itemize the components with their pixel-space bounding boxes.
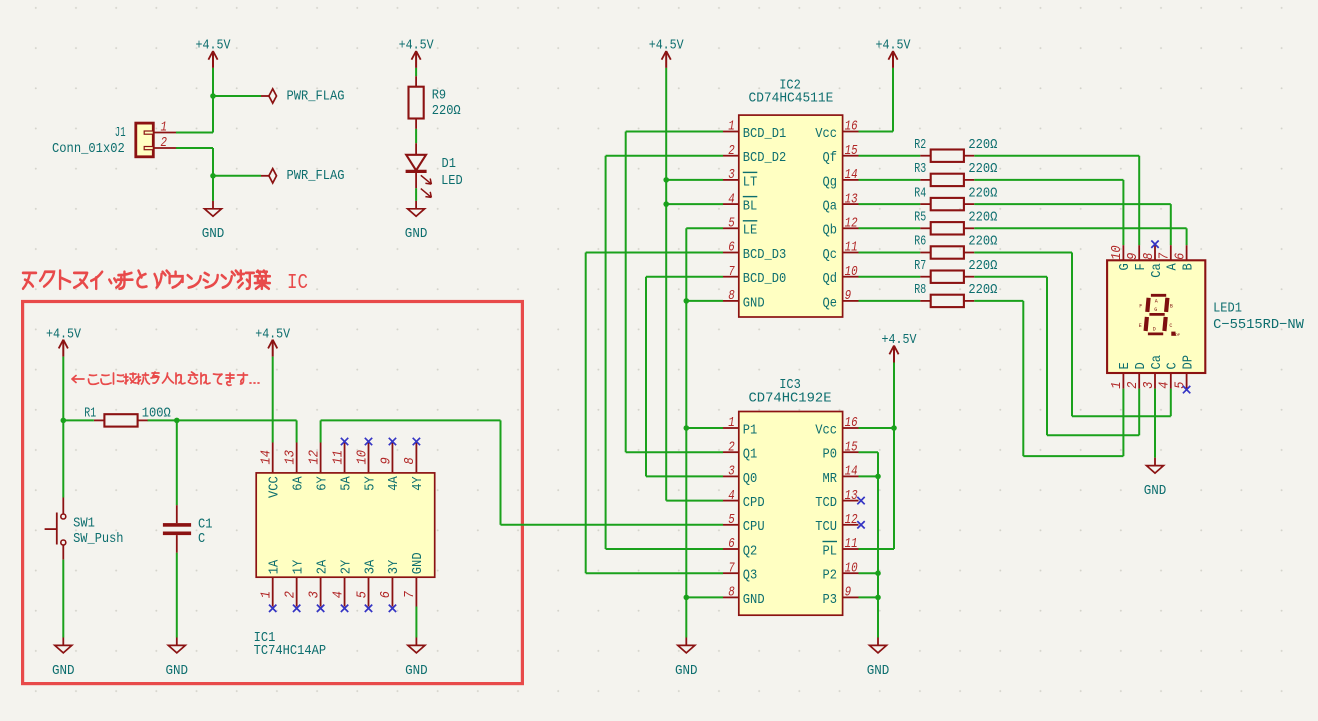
svg-text:Qg: Qg — [823, 174, 838, 190]
svg-text:9: 9 — [1125, 253, 1141, 260]
pin 8 left — [723, 300, 739, 302]
junction — [663, 177, 669, 183]
resistor R1 — [84, 405, 171, 426]
svg-text:10: 10 — [1109, 245, 1125, 260]
pin 1 left — [723, 131, 739, 133]
wire — [586, 572, 723, 574]
ground — [202, 201, 225, 242]
wire — [586, 252, 723, 254]
svg-text:R8: R8 — [914, 282, 926, 298]
wire — [859, 131, 894, 133]
svg-text:10: 10 — [845, 264, 858, 280]
wire — [1186, 228, 1188, 245]
svg-text:P0: P0 — [823, 447, 838, 463]
svg-text:R4: R4 — [914, 185, 926, 201]
svg-text:13: 13 — [845, 191, 858, 207]
pin 9 top — [391, 443, 393, 473]
svg-text:2A: 2A — [314, 559, 330, 574]
text note: forgot resistor here (Japanese, red) — [72, 372, 259, 385]
svg-text:P2: P2 — [823, 568, 838, 584]
svg-text:6: 6 — [378, 591, 394, 598]
svg-text:4: 4 — [728, 488, 735, 504]
annotation rectangle (red box) — [23, 302, 523, 684]
svg-text:1: 1 — [728, 119, 735, 135]
svg-text:2: 2 — [1125, 382, 1141, 389]
svg-text:9: 9 — [845, 288, 852, 304]
svg-text:CPD: CPD — [743, 495, 765, 511]
svg-text:R2: R2 — [914, 137, 926, 153]
display LED1 C-5515RD-NW (7-segment) — [1107, 245, 1304, 389]
pin 13 right — [843, 500, 859, 502]
wire — [415, 188, 417, 201]
wire — [1138, 156, 1140, 246]
pin 2 left — [723, 451, 739, 453]
pin 16 right — [843, 131, 859, 133]
svg-text:2: 2 — [728, 143, 735, 159]
svg-text:SW1: SW1 — [73, 516, 95, 532]
svg-text:E: E — [1117, 362, 1133, 369]
svg-text:+4.5V: +4.5V — [46, 327, 81, 343]
wire — [893, 363, 895, 550]
wire — [1170, 204, 1172, 245]
junction — [61, 418, 67, 424]
svg-text:10: 10 — [845, 560, 858, 576]
wire — [974, 276, 1047, 278]
wire — [686, 227, 723, 229]
resistor R3 — [914, 161, 997, 186]
svg-text:220Ω: 220Ω — [968, 258, 997, 274]
svg-text:GND: GND — [405, 663, 428, 679]
svg-text:A: A — [1165, 263, 1181, 271]
svg-text:16: 16 — [845, 119, 858, 135]
ground — [867, 638, 890, 679]
svg-text:CPU: CPU — [743, 519, 765, 535]
resistor R8 — [914, 282, 997, 307]
wire — [176, 147, 213, 149]
wire — [859, 572, 879, 574]
svg-text:8: 8 — [728, 585, 735, 601]
pin 11 right — [843, 548, 859, 550]
pin 13 top — [296, 443, 298, 473]
svg-text:BCD_D0: BCD_D0 — [743, 271, 787, 287]
svg-text:BCD_D1: BCD_D1 — [743, 126, 787, 142]
svg-text:11: 11 — [845, 536, 858, 552]
no-connect X — [413, 438, 420, 445]
junction — [174, 418, 180, 424]
svg-text:+4.5V: +4.5V — [399, 37, 434, 53]
wire — [859, 203, 921, 205]
wire — [859, 451, 879, 453]
wire — [62, 420, 64, 497]
svg-text:7: 7 — [402, 590, 418, 598]
svg-text:R9: R9 — [432, 87, 446, 103]
svg-text:TC74HC14AP: TC74HC14AP — [254, 643, 327, 659]
wire — [974, 227, 1186, 229]
wire — [625, 132, 627, 453]
svg-text:4: 4 — [330, 591, 346, 598]
wire — [686, 427, 723, 429]
pin 8 top — [415, 443, 417, 473]
resistor R5 — [914, 210, 997, 235]
wire — [415, 129, 417, 143]
pin 1 left — [723, 427, 739, 429]
pin 8 top — [1154, 245, 1156, 260]
svg-text:PWR_FLAG: PWR_FLAG — [287, 168, 345, 184]
svg-text:Qb: Qb — [823, 223, 838, 239]
svg-text:+4.5V: +4.5V — [876, 37, 911, 53]
svg-text:GND: GND — [202, 226, 225, 242]
power flag PWR_FLAG (bottom) — [261, 168, 345, 184]
no-connect X — [1183, 386, 1190, 393]
switch SW1 SW_Push — [45, 498, 124, 560]
svg-text:PL: PL — [823, 543, 838, 559]
svg-text:GND: GND — [166, 663, 189, 679]
svg-text:+4.5V: +4.5V — [196, 37, 231, 53]
svg-text:9: 9 — [378, 457, 394, 464]
pin 12 top — [320, 443, 322, 473]
wire — [626, 131, 723, 133]
pin 2 left — [723, 155, 739, 157]
svg-text:Vcc: Vcc — [815, 422, 837, 438]
power +4.5V — [255, 327, 290, 357]
svg-text:Qe: Qe — [823, 295, 838, 311]
wire — [859, 596, 879, 598]
junction — [875, 595, 881, 601]
wire — [1122, 180, 1124, 245]
pin 9 right — [843, 596, 859, 598]
svg-text:+4.5V: +4.5V — [882, 332, 917, 348]
svg-text:5Y: 5Y — [362, 476, 378, 491]
pin 4 bottom — [1170, 373, 1172, 389]
svg-text:2: 2 — [161, 135, 168, 151]
svg-text:15: 15 — [845, 143, 858, 159]
wire — [213, 175, 261, 177]
svg-text:CD74HC192E: CD74HC192E — [749, 391, 832, 407]
pin 3 left — [723, 475, 739, 477]
svg-text:7: 7 — [728, 560, 735, 576]
svg-text:Q0: Q0 — [743, 471, 758, 487]
svg-text:G: G — [1154, 307, 1157, 313]
wire — [646, 475, 723, 477]
wire — [859, 300, 921, 302]
wire — [685, 228, 687, 637]
svg-text:+4.5V: +4.5V — [649, 37, 684, 53]
svg-text:C−5515RD−NW: C−5515RD−NW — [1213, 317, 1304, 333]
pin 7 left — [723, 276, 739, 278]
svg-text:16: 16 — [845, 415, 858, 431]
svg-text:R1: R1 — [84, 405, 96, 421]
pin 14 top — [272, 443, 274, 473]
junction — [684, 595, 690, 601]
junction — [663, 201, 669, 207]
svg-text:B: B — [1170, 304, 1173, 310]
wire — [321, 419, 501, 421]
IC U2 (IC2 CD74HC4511E BCD to 7-seg decoder) — [723, 77, 859, 317]
wire — [665, 68, 667, 501]
svg-text:4: 4 — [728, 191, 735, 207]
no-connect X — [365, 605, 372, 612]
power +4.5V — [876, 37, 911, 68]
svg-text:DP: DP — [1175, 334, 1180, 338]
svg-text:3: 3 — [728, 464, 735, 480]
ground — [166, 638, 189, 679]
power +4.5V — [46, 327, 81, 357]
power +4.5V — [196, 37, 231, 68]
wire — [501, 524, 724, 526]
text note: tact switch & debounce IC title (Japanese) — [23, 271, 270, 289]
no-connect X — [341, 605, 348, 612]
svg-text:CD74HC4511E: CD74HC4511E — [749, 91, 834, 107]
wire — [859, 179, 921, 181]
svg-text:5: 5 — [1172, 381, 1188, 389]
wire — [148, 419, 297, 421]
wire — [1072, 415, 1171, 417]
svg-text:C: C — [1169, 323, 1172, 329]
resistor R2 — [914, 137, 997, 162]
no-connect X — [317, 605, 324, 612]
junction — [210, 173, 216, 179]
resistor R7 — [914, 258, 997, 283]
pin 6 top — [1186, 245, 1188, 260]
pin 5 bottom — [1186, 373, 1188, 389]
svg-text:6A: 6A — [290, 476, 306, 491]
svg-text:Conn_01x02: Conn_01x02 — [52, 141, 125, 157]
svg-text:5: 5 — [728, 512, 735, 528]
wire — [974, 300, 1023, 302]
pin 5 bottom — [368, 577, 370, 606]
svg-text:7: 7 — [1157, 252, 1173, 260]
svg-text:1: 1 — [1109, 382, 1125, 389]
svg-text:220Ω: 220Ω — [968, 185, 997, 201]
svg-text:GND: GND — [867, 663, 890, 679]
svg-text:5: 5 — [354, 590, 370, 598]
pin 11 top — [344, 443, 346, 473]
resistor R6 — [914, 234, 997, 259]
power +4.5V — [399, 37, 434, 68]
no-connect X — [857, 521, 864, 528]
svg-text:12: 12 — [306, 450, 322, 465]
svg-text:F: F — [1139, 304, 1142, 310]
svg-text:LE: LE — [743, 223, 758, 239]
svg-text:Q3: Q3 — [743, 568, 758, 584]
svg-text:P1: P1 — [743, 422, 758, 438]
wire — [500, 420, 502, 524]
wire — [212, 68, 214, 133]
svg-text:15: 15 — [845, 439, 858, 455]
wire — [666, 500, 723, 502]
pin 10 right — [843, 572, 859, 574]
power flag PWR_FLAG (top) — [261, 88, 345, 104]
wire — [974, 203, 1171, 205]
svg-text:R6: R6 — [914, 234, 926, 250]
wire — [859, 155, 921, 157]
svg-text:D: D — [1153, 327, 1156, 333]
svg-text:MR: MR — [823, 471, 838, 487]
svg-text:C: C — [198, 531, 205, 547]
pin 7 top — [1170, 245, 1172, 260]
svg-text:Q2: Q2 — [743, 543, 758, 559]
wire — [859, 227, 921, 229]
svg-text:Qf: Qf — [823, 150, 838, 166]
junction — [210, 93, 216, 99]
wire — [176, 553, 178, 638]
svg-text:Q1: Q1 — [743, 447, 758, 463]
svg-text:8: 8 — [728, 288, 735, 304]
svg-text:J1: J1 — [115, 125, 126, 141]
pin 16 right — [843, 427, 859, 429]
svg-text:1A: 1A — [267, 559, 283, 574]
svg-text:GND: GND — [743, 592, 765, 608]
svg-text:14: 14 — [259, 450, 275, 465]
svg-text:220Ω: 220Ω — [432, 103, 461, 119]
pin 3 bottom — [320, 577, 322, 606]
svg-text:GND: GND — [52, 663, 75, 679]
pin 15 right — [843, 155, 859, 157]
svg-text:100Ω: 100Ω — [142, 405, 171, 421]
svg-text:GND: GND — [743, 295, 765, 311]
svg-text:3A: 3A — [362, 559, 378, 574]
svg-text:Qa: Qa — [823, 199, 838, 215]
wire — [666, 179, 723, 181]
svg-text:F: F — [1133, 263, 1149, 270]
pin 5 left — [723, 227, 739, 229]
svg-text:1: 1 — [728, 415, 735, 431]
IC U1 (IC1 TC74HC14AP hex Schmitt inverter) — [254, 443, 435, 660]
wire — [859, 252, 921, 254]
junction — [684, 425, 690, 431]
wire — [974, 252, 1072, 254]
wire — [272, 357, 274, 443]
wire — [212, 176, 214, 201]
svg-text:5: 5 — [728, 216, 735, 232]
no-connect X — [365, 438, 372, 445]
wire — [1022, 301, 1024, 456]
wire — [62, 357, 64, 421]
no-connect X — [1151, 241, 1158, 248]
svg-text:Ca: Ca — [1149, 263, 1165, 278]
wire — [62, 560, 64, 638]
wire — [1138, 389, 1140, 436]
pin 12 right — [843, 227, 859, 229]
wire — [1047, 434, 1139, 436]
wire — [686, 596, 723, 598]
wire — [212, 148, 214, 176]
svg-text:1: 1 — [259, 591, 275, 598]
power +4.5V — [649, 37, 684, 68]
svg-text:Ca: Ca — [1149, 355, 1165, 370]
svg-text:12: 12 — [845, 512, 858, 528]
wire — [320, 420, 322, 442]
svg-text:Qd: Qd — [823, 271, 838, 287]
pin 6 left — [723, 548, 739, 550]
svg-text:13: 13 — [282, 450, 298, 465]
LED D1 — [406, 143, 463, 197]
wire — [1046, 277, 1048, 436]
svg-text:VCC: VCC — [267, 476, 283, 498]
pin 1 bottom — [1122, 373, 1124, 389]
pin 5 left — [723, 524, 739, 526]
svg-text:E: E — [1139, 323, 1142, 329]
svg-text:LT: LT — [743, 174, 758, 190]
svg-text:3: 3 — [306, 591, 322, 598]
7-segment digit glyph — [1146, 295, 1168, 334]
wire — [1071, 253, 1073, 417]
wire — [892, 68, 894, 132]
svg-text:Qc: Qc — [823, 247, 838, 263]
svg-text:13: 13 — [845, 488, 858, 504]
pin 7 left — [723, 572, 739, 574]
svg-text:GND: GND — [410, 552, 426, 574]
wire — [859, 276, 921, 278]
svg-text:TCD: TCD — [815, 495, 837, 511]
wire — [666, 203, 723, 205]
wire — [1023, 455, 1123, 457]
wire — [63, 419, 94, 421]
wire — [606, 548, 723, 550]
pin 3 left — [723, 179, 739, 181]
svg-text:8: 8 — [402, 457, 418, 464]
svg-text:IC: IC — [287, 272, 308, 295]
connector J1 Conn_01x02 — [52, 120, 176, 157]
wire — [686, 300, 723, 302]
svg-text:14: 14 — [845, 167, 858, 183]
svg-text:3: 3 — [728, 167, 735, 183]
svg-text:+4.5V: +4.5V — [255, 327, 290, 343]
svg-text:BCD_D3: BCD_D3 — [743, 247, 787, 263]
pin 15 right — [843, 451, 859, 453]
pin 12 right — [843, 524, 859, 526]
svg-text:6: 6 — [728, 240, 735, 256]
svg-text:2: 2 — [728, 439, 735, 455]
svg-text:P3: P3 — [823, 592, 838, 608]
pin 10 top — [1122, 245, 1124, 260]
pin 2 bottom — [1138, 373, 1140, 389]
svg-text:GND: GND — [1144, 483, 1167, 499]
wire — [646, 276, 723, 278]
wire — [213, 95, 261, 97]
svg-text:DP: DP — [1180, 355, 1196, 370]
pin 1 — [153, 132, 176, 134]
svg-text:A: A — [1155, 298, 1158, 304]
wire — [296, 420, 298, 442]
svg-text:D: D — [1133, 362, 1149, 369]
svg-text:LED1: LED1 — [1213, 300, 1242, 316]
svg-text:1Y: 1Y — [290, 559, 306, 574]
capacitor C1 — [163, 505, 213, 553]
svg-text:GND: GND — [675, 663, 698, 679]
pin 14 right — [843, 475, 859, 477]
pin 4 left — [723, 203, 739, 205]
svg-text:R7: R7 — [914, 258, 926, 274]
power +4.5V — [882, 332, 917, 363]
svg-text:2: 2 — [282, 591, 298, 598]
wire — [859, 427, 895, 429]
wire — [974, 155, 1139, 157]
svg-text:B: B — [1180, 263, 1196, 270]
svg-text:220Ω: 220Ω — [968, 282, 997, 298]
resistor R9 — [409, 76, 461, 129]
svg-text:GND: GND — [405, 226, 428, 242]
ground — [52, 638, 75, 679]
pin 7 bottom — [415, 577, 417, 606]
svg-text:8: 8 — [1141, 253, 1157, 260]
no-connect X — [269, 605, 276, 612]
wire — [1122, 389, 1124, 457]
pin 9 right — [843, 300, 859, 302]
wire — [176, 420, 178, 505]
pin 2 bottom — [296, 577, 298, 606]
svg-text:3Y: 3Y — [386, 559, 402, 574]
